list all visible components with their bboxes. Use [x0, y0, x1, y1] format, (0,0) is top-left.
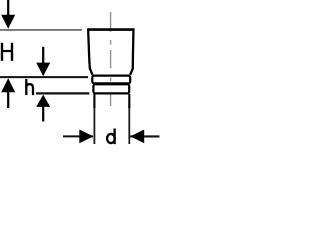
H dimension arrow top (points down to rim line): [1, 0, 15, 29]
label H: [2, 43, 12, 61]
extension line middle (H bottom / h top, collar top level): [0, 76, 88, 78]
pipe left wall (spigot): [93, 94, 95, 108]
cup rim (top edge): [88, 28, 134, 31]
d dimension line right segment: [130, 135, 160, 137]
d extension line right (pipe wall continued): [128, 107, 130, 144]
h dimension arrow bottom (points up to collar-bottom line): [36, 95, 50, 122]
H dimension arrow bottom (points up to collar-top line): [1, 78, 15, 108]
cup right side (near vertical, chamfer into collar): [130, 28, 133, 74]
label d: [107, 129, 115, 145]
collar band 1 (upper ring): [92, 76, 130, 84]
pipe right wall (spigot): [128, 94, 130, 108]
extension line top (H, at rim level, thin gray): [0, 29, 82, 31]
d dimension arrow right (points left at right pipe wall): [130, 130, 144, 144]
d dimension arrow left (points right at left pipe wall): [79, 130, 93, 144]
extension line lower (h bottom, collar bottom level): [36, 92, 89, 94]
d dimension line left segment: [63, 135, 93, 137]
cup left side (near vertical, chamfer into collar): [88, 28, 92, 74]
d extension line left (pipe wall continued): [93, 107, 95, 144]
label h: [26, 79, 33, 95]
collar band 2 (lower ring): [93, 84, 129, 93]
h dimension arrow top (points down to collar-top line): [36, 47, 50, 76]
centerline (vertical dash-dot axis of the fitting): [110, 12, 112, 106]
